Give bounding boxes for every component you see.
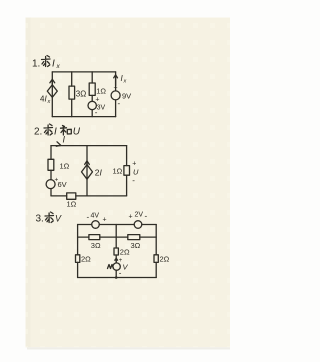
resistor 1ohm (circuit 2 right edge) bbox=[113, 166, 130, 176]
svg-text:-: - bbox=[145, 212, 148, 221]
svg-text:2Ω: 2Ω bbox=[160, 255, 170, 264]
resistor 2ohm (right edge) bbox=[154, 255, 170, 264]
svg-text:2.: 2. bbox=[34, 127, 42, 138]
title problem 2: "2. qiu I he U" bbox=[34, 124, 81, 138]
svg-text:9V: 9V bbox=[122, 92, 131, 101]
wire: circuit 1 bottom bbox=[52, 116, 115, 118]
wire: circuit 3 middle branch bbox=[115, 225, 117, 278]
svg-text:3Ω: 3Ω bbox=[91, 241, 101, 250]
title problem 1: "1. qiu Ix" bbox=[32, 56, 61, 71]
voltage source 9V bbox=[111, 85, 131, 109]
wire: circuit 3 left edge bbox=[77, 225, 79, 278]
resistor 2ohm (middle branch) bbox=[114, 248, 130, 257]
title problem 3: "3. qiu V" bbox=[36, 212, 63, 225]
wire: circuit 1 right edge bbox=[115, 72, 117, 117]
wire: circuit 1 branch 2 bbox=[71, 72, 73, 117]
wire: circuit 1 left edge bbox=[51, 72, 53, 117]
voltage source 4V (top left) bbox=[87, 213, 107, 229]
resistor 3ohm (inner left) bbox=[89, 235, 101, 250]
svg-text:-: - bbox=[95, 108, 98, 117]
svg-text:2V: 2V bbox=[135, 212, 144, 219]
current arrow Ix bbox=[114, 74, 127, 86]
svg-text:4V: 4V bbox=[91, 213, 100, 220]
resistor 1ohm (circuit 1 branch 3) bbox=[89, 83, 106, 96]
voltage source 3V bbox=[88, 97, 105, 118]
voltage source V bbox=[113, 263, 129, 278]
wire: circuit 2 left edge bbox=[50, 146, 52, 196]
resistor 3ohm (inner right) bbox=[128, 235, 141, 250]
resistor 2ohm (left edge) bbox=[76, 255, 92, 264]
svg-text:3Ω: 3Ω bbox=[131, 241, 141, 250]
wire: circuit 3 bottom bbox=[78, 277, 157, 279]
voltage label +U- bbox=[132, 161, 139, 186]
svg-text:1Ω: 1Ω bbox=[60, 162, 70, 171]
svg-text:x: x bbox=[47, 99, 51, 105]
value label 4Ix bbox=[40, 95, 51, 106]
svg-text:+: + bbox=[114, 85, 118, 92]
svg-text:I: I bbox=[52, 59, 55, 70]
resistor 3ohm (circuit 1) bbox=[69, 86, 86, 99]
svg-text:+: + bbox=[132, 161, 136, 168]
svg-text:-: - bbox=[132, 176, 135, 185]
svg-text:6V: 6V bbox=[58, 180, 67, 189]
wire: circuit 1 branch 3 bbox=[91, 72, 93, 117]
wire: circuit 2 right edge bbox=[126, 146, 128, 196]
svg-text:-: - bbox=[118, 99, 121, 108]
svg-text:1.: 1. bbox=[32, 59, 40, 70]
wire: circuit 2 middle branch bbox=[86, 146, 88, 196]
voltage source 6V bbox=[46, 177, 67, 190]
wire: circuit 3 right edge bbox=[155, 225, 157, 278]
svg-text:1Ω: 1Ω bbox=[113, 167, 123, 176]
resistor 1ohm (circuit 2 left edge) bbox=[48, 159, 70, 170]
svg-text:I: I bbox=[54, 127, 57, 138]
wire: circuit 3 inner horizontal bbox=[78, 236, 157, 238]
current arrow I bbox=[56, 135, 65, 147]
svg-text:3.: 3. bbox=[36, 214, 44, 225]
scribble mark left of source V bbox=[108, 265, 114, 269]
dependent current source 4Ix (diamond, left edge) bbox=[47, 79, 57, 97]
svg-text:3Ω: 3Ω bbox=[76, 90, 86, 99]
svg-text:+: + bbox=[95, 97, 99, 104]
svg-text:2Ω: 2Ω bbox=[81, 255, 91, 264]
wire: circuit 1 top bbox=[52, 71, 115, 73]
wire: circuit 2 bottom bbox=[51, 195, 127, 197]
svg-text:1Ω: 1Ω bbox=[67, 200, 77, 209]
svg-text:-: - bbox=[119, 269, 122, 278]
dependent current source 2I (diamond) bbox=[82, 161, 93, 179]
resistor 1ohm (circuit 2 bottom edge) bbox=[67, 193, 77, 209]
svg-text:2Ω: 2Ω bbox=[120, 248, 130, 257]
wire: circuit 3 top bbox=[78, 224, 157, 226]
svg-text:-: - bbox=[87, 213, 90, 222]
svg-text:3V: 3V bbox=[97, 105, 106, 112]
voltage source 2V (top right) bbox=[129, 212, 148, 229]
svg-text:+: + bbox=[103, 217, 107, 224]
svg-text:+: + bbox=[129, 214, 133, 221]
wire: circuit 2 top bbox=[51, 145, 127, 147]
value label 2I bbox=[95, 168, 103, 178]
polarity arrow and plus above source V bbox=[115, 258, 123, 264]
svg-text:V: V bbox=[55, 214, 62, 224]
junction node (middle branch / bottom wire) bbox=[115, 276, 118, 279]
svg-text:x: x bbox=[123, 79, 127, 85]
svg-text:U: U bbox=[73, 127, 81, 138]
svg-text:1Ω: 1Ω bbox=[96, 87, 106, 96]
